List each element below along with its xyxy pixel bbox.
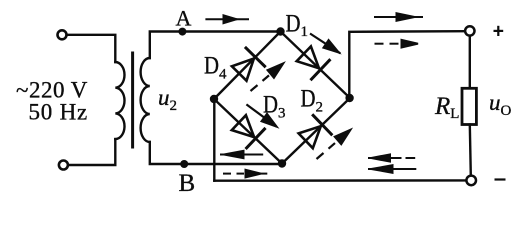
wire: resistor to minus terminal: [470, 125, 471, 176]
diode D2: [299, 115, 332, 148]
svg-text:50 Hz: 50 Hz: [29, 100, 89, 125]
bridge left node: [210, 95, 218, 103]
bridge edge: left node to bottom node (D3 branch): [214, 99, 282, 164]
node B junction dot: [180, 160, 188, 168]
wire: secondary top lead to node A and bridge top: [150, 32, 281, 59]
current arrow (dashed) bottom middle, rightward: [223, 170, 267, 178]
bridge edge: bottom node to right node (D2 branch): [282, 98, 350, 164]
svg-text:A: A: [176, 6, 192, 31]
wire: secondary bottom lead to node B and bridge bottom: [150, 142, 282, 164]
current arrow (dashed) along D2, up-right: [317, 130, 351, 159]
label minus: [495, 178, 506, 180]
svg-text:u2: u2: [158, 85, 177, 114]
svg-text:B: B: [179, 170, 196, 197]
current arrow (solid) along D1, down-right: [310, 34, 340, 54]
wire: bottom rail to minus terminal: [214, 179, 466, 182]
transformer secondary winding: [141, 58, 150, 142]
current arrow (solid) top right rail, rightward: [374, 13, 423, 21]
node A junction dot: [178, 28, 186, 36]
bridge top node: [276, 27, 284, 35]
current arrow (dashed) bottom right rail, leftward: [368, 154, 415, 161]
current arrow (dashed) along D4, up-right: [251, 64, 284, 91]
wire: bridge left node down to bottom rail: [213, 99, 215, 181]
output terminal plus: [465, 26, 474, 35]
diode D3: [232, 115, 265, 148]
svg-text:D1: D1: [286, 11, 309, 41]
wire: plus terminal down to resistor: [469, 36, 471, 88]
wire: bridge right node up to top rail: [349, 31, 465, 98]
current arrow (solid) on wire A, rightward: [205, 15, 249, 23]
bridge edge: left node to top node (D4 branch): [214, 32, 281, 100]
svg-text:uO: uO: [489, 90, 512, 119]
svg-text:D3: D3: [263, 92, 286, 122]
AC input terminal (bottom-left): [59, 161, 68, 170]
current arrow (dashed) top right rail, rightward: [375, 40, 419, 48]
svg-text:RL: RL: [434, 93, 459, 122]
diode D4: [232, 48, 265, 81]
resistor RL: [462, 88, 476, 124]
bridge bottom node: [278, 159, 286, 167]
label plus: [494, 26, 504, 36]
svg-text:D2: D2: [301, 86, 324, 116]
diode D1: [297, 46, 330, 79]
current arrow (solid) bottom middle, leftward: [220, 151, 263, 158]
svg-text:D4: D4: [204, 52, 227, 82]
AC input terminal (top-left): [58, 30, 67, 39]
wire: top terminal to primary: [67, 35, 116, 62]
transformer core: [131, 53, 134, 147]
transformer primary winding: [115, 62, 124, 139]
current arrow (solid) along D3, down-right: [246, 104, 276, 126]
bridge edge: top node to right node (D1 branch): [281, 32, 351, 99]
wire: primary bottom lead: [68, 139, 115, 165]
bridge right node: [345, 94, 353, 102]
output terminal minus: [466, 176, 476, 186]
current arrow (solid) bottom right rail, leftward: [368, 165, 416, 173]
